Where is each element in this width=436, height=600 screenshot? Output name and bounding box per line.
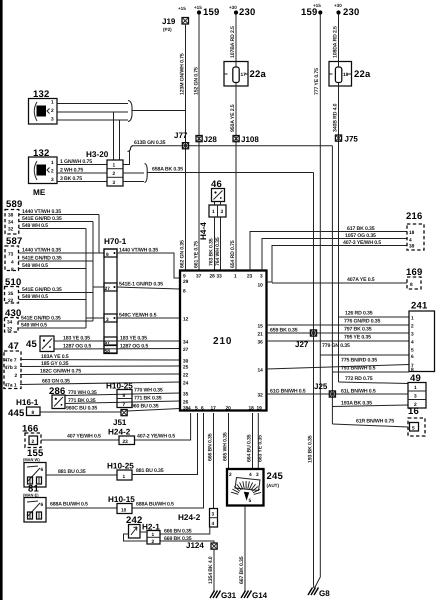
svg-text:32: 32 bbox=[7, 327, 13, 333]
svg-text:27: 27 bbox=[183, 347, 189, 353]
wire 772 RD 0.75 from J75 line to 49 pin 1 bbox=[339, 376, 409, 384]
svg-text:1: 1 bbox=[414, 385, 417, 391]
svg-text:1: 1 bbox=[411, 316, 414, 322]
connector H4-4 bbox=[199, 202, 226, 241]
svg-text:+30: +30 bbox=[334, 3, 342, 8]
svg-text:H24-2: H24-2 bbox=[178, 513, 201, 522]
node J108 bbox=[233, 135, 259, 144]
shield bracket on 658A at H3-20 bbox=[145, 164, 148, 183]
svg-text:772 RD 0.75: 772 RD 0.75 bbox=[345, 376, 373, 382]
wire 881 BU 0.35 from 155 to H10-25 pin 1 bbox=[46, 469, 117, 475]
svg-text:881 BU 0.35: 881 BU 0.35 bbox=[136, 468, 164, 474]
svg-text:2: 2 bbox=[15, 373, 18, 379]
wire 688A BU/WH 0.5 from H10-15 to ECU pin 6 bbox=[132, 413, 204, 508]
connector H10-15 (pin 10) bbox=[108, 495, 135, 514]
svg-text:24: 24 bbox=[183, 381, 189, 387]
svg-text:58: 58 bbox=[105, 349, 111, 355]
svg-text:9: 9 bbox=[183, 274, 186, 280]
svg-text:22a: 22a bbox=[354, 69, 371, 80]
wire 1440 VT/WH 0.35 from 589-38 bbox=[19, 209, 99, 215]
wire 61G BN/WH 0.5 from ECU pin 32 through J25, 61L BN/WH 0.5 to 49 pin 3 bbox=[267, 389, 409, 395]
svg-text:407 YE/WH 0.5: 407 YE/WH 0.5 bbox=[67, 434, 101, 440]
svg-text:4: 4 bbox=[188, 406, 191, 412]
node 159 right (+15 supply) bbox=[301, 3, 322, 18]
svg-text:245: 245 bbox=[267, 471, 284, 482]
svg-text:4: 4 bbox=[212, 521, 215, 527]
wire 407-3 YE/WH 0.5 from pin 10 junction to 216 pin 38 bbox=[267, 240, 408, 282]
node 230 right (+30 supply) bbox=[334, 3, 359, 18]
svg-text:5: 5 bbox=[412, 426, 415, 432]
svg-text:881 BU 0.35: 881 BU 0.35 bbox=[58, 469, 86, 475]
wire 771 BK 0.35 from 286 to ECU pin 26 bbox=[65, 396, 180, 405]
svg-text:666 BN 0.35: 666 BN 0.35 bbox=[164, 529, 192, 535]
svg-text:27: 27 bbox=[105, 286, 111, 292]
wire 541E-1 GN/RD 0.35 from H70-1 pin 27 to ECU pin 8 bbox=[117, 282, 180, 290]
svg-text:108DA RD 2.5: 108DA RD 2.5 bbox=[333, 26, 339, 58]
wire 541E GN/RD 0.35 from 510-35 bbox=[19, 287, 94, 293]
svg-text:763 BK 0.35: 763 BK 0.35 bbox=[209, 238, 215, 266]
wire 777 YE 0.75 from 159 right, down to ground G8 bbox=[314, 14, 320, 588]
node J77 bbox=[174, 131, 189, 149]
node 159 left (+15 supply) bbox=[194, 5, 219, 18]
wire 1057 OG 0.35 from ECU pin 3 to 216 pin 4 bbox=[262, 233, 407, 271]
svg-text:152 GN 0.75: 152 GN 0.75 bbox=[194, 67, 200, 95]
svg-text:(MAN E): (MAN E) bbox=[23, 493, 39, 498]
svg-text:183A YE 0.5: 183A YE 0.5 bbox=[41, 354, 69, 360]
svg-text:688A BU/WH 0.5: 688A BU/WH 0.5 bbox=[136, 502, 174, 508]
svg-text:5: 5 bbox=[195, 406, 198, 412]
wire 107BA RD 2.5 down to fuse 22a bbox=[230, 14, 236, 62]
component 589 (dashed unit) bbox=[5, 199, 22, 234]
svg-text:34: 34 bbox=[7, 320, 13, 326]
wire 193A BK 0.35 from J25 to 49 pin 2 bbox=[332, 401, 408, 407]
svg-text:340B RD 4.0: 340B RD 4.0 bbox=[333, 103, 339, 132]
svg-text:1440 VT/WH 0.35: 1440 VT/WH 0.35 bbox=[119, 248, 158, 254]
svg-text:34: 34 bbox=[8, 220, 14, 226]
component 216 (dashed unit) bbox=[406, 211, 424, 250]
svg-text:10: 10 bbox=[258, 283, 264, 289]
wire 407A YE 0.5 from pin 10 junction to 169 pin 8 bbox=[272, 277, 407, 283]
svg-text:549 WH 0.5: 549 WH 0.5 bbox=[22, 294, 48, 300]
svg-text:J108: J108 bbox=[241, 135, 259, 144]
svg-text:541E-1 GN/RD 0.35: 541E-1 GN/RD 0.35 bbox=[119, 282, 163, 288]
svg-text:2: 2 bbox=[152, 539, 155, 545]
node J51 bbox=[113, 410, 127, 428]
node J75 bbox=[335, 135, 358, 144]
svg-text:36: 36 bbox=[258, 340, 264, 346]
wire 182C GN/WH 0.75 to ECU pin 22 bbox=[20, 369, 180, 375]
wire 549 WH 0.5 from 510-22 bbox=[19, 294, 87, 300]
svg-text:16: 16 bbox=[408, 406, 419, 417]
wire 666 BN 0.35 from H24-2 to H2-1 pin 1 bbox=[160, 527, 210, 535]
svg-text:663 YE 0.35: 663 YE 0.35 bbox=[258, 435, 264, 462]
wire BK down from 658A through J27 to ground G8, label 193 BK 0.35 bbox=[308, 173, 314, 589]
svg-text:193A BK 0.35: 193A BK 0.35 bbox=[341, 401, 372, 407]
svg-text:3: 3 bbox=[414, 394, 417, 400]
svg-text:G8: G8 bbox=[319, 589, 330, 598]
svg-text:12: 12 bbox=[183, 317, 189, 323]
connector H3-20 bbox=[86, 150, 123, 186]
svg-text:541E GN/RD 0.35: 541E GN/RD 0.35 bbox=[22, 256, 62, 262]
svg-text:G14: G14 bbox=[252, 591, 268, 600]
svg-text:549 WH 0.5: 549 WH 0.5 bbox=[21, 323, 47, 329]
svg-text:407A YE 0.5: 407A YE 0.5 bbox=[347, 277, 375, 283]
svg-text:1: 1 bbox=[113, 163, 116, 169]
connector H24-2 (pin 23) bbox=[108, 428, 135, 446]
component 155 pressure switch bbox=[23, 448, 46, 487]
wires H3-20 pins 2,3 to bracket bbox=[123, 173, 144, 182]
svg-text:658A BK 0.35: 658A BK 0.35 bbox=[152, 167, 183, 173]
svg-text:6: 6 bbox=[411, 354, 414, 360]
wire 541E GN/RD 0.35 from 589-34 bbox=[19, 216, 93, 222]
component 132 lower (sensor) ME bbox=[29, 148, 58, 197]
wire 795 YE 0.35 from ECU pin 36 to 241 pin 4 bbox=[267, 335, 410, 342]
svg-text:26: 26 bbox=[183, 400, 189, 406]
wire 775 BN/RD 0.35 from ECU pin 14 to 241 pin 7 bbox=[267, 358, 410, 370]
component 81 pressure switch bbox=[23, 484, 46, 523]
svg-text:23: 23 bbox=[123, 439, 129, 445]
wire 667 BK 0.35 from 245 pin 5 to ground G14 bbox=[239, 506, 245, 592]
svg-text:216: 216 bbox=[406, 211, 422, 222]
svg-text:659 BK 0.35: 659 BK 0.35 bbox=[270, 328, 298, 334]
svg-text:541E GN/RD 0.35: 541E GN/RD 0.35 bbox=[21, 316, 61, 322]
svg-text:18: 18 bbox=[409, 230, 415, 236]
shield bracket at 132 upper bbox=[128, 101, 132, 122]
wire 779 GN 0.35 from 159R line to 241 pin 6 bbox=[320, 343, 409, 355]
component 510 (dashed unit) bbox=[5, 277, 22, 304]
wire 1440 VT/WH 0.35 from H70-1 pin 9 to ECU pin 29 bbox=[117, 248, 180, 279]
component 242 bbox=[126, 515, 142, 538]
wire 1287 OG 0.5 from 45 to ECU pin 27 bbox=[54, 344, 180, 350]
svg-text:7: 7 bbox=[123, 402, 126, 408]
svg-text:2: 2 bbox=[113, 171, 116, 177]
svg-text:38: 38 bbox=[8, 213, 14, 219]
svg-text:587: 587 bbox=[6, 236, 22, 247]
svg-text:665 WH 0.35: 665 WH 0.35 bbox=[223, 432, 229, 461]
svg-text:8: 8 bbox=[183, 289, 186, 295]
svg-text:1: 1 bbox=[234, 274, 237, 280]
wire branches from 132 pins 2,3 down to H3-20 bbox=[114, 112, 120, 160]
wire 185 GY 0.35 to ECU pin 25 bbox=[20, 361, 180, 367]
svg-text:37: 37 bbox=[196, 274, 202, 280]
riser 541E bus bbox=[92, 222, 94, 322]
svg-text:3: 3 bbox=[260, 274, 263, 280]
wire 950A YE 2.5 / 654 RD 0.75 from fuse through J108 to ECU pin 1 bbox=[230, 86, 236, 271]
svg-text:241: 241 bbox=[411, 301, 428, 312]
svg-text:1440 VT/WH 0.35: 1440 VT/WH 0.35 bbox=[22, 209, 61, 215]
svg-text:H70-1: H70-1 bbox=[104, 237, 127, 246]
wire 665 WH 0.35 from ECU pin 20 down to 245 pin 2 bbox=[223, 413, 229, 469]
wire 658A BK 0.35 from bracket to turn at x313.5 bbox=[147, 167, 313, 173]
wire from bracket to J19 line bbox=[132, 110, 186, 112]
ECU 210 bbox=[180, 271, 267, 412]
wire 242 to H2-1 stubs bbox=[124, 532, 148, 541]
svg-text:J28: J28 bbox=[204, 135, 218, 144]
svg-text:549 WH 0.5: 549 WH 0.5 bbox=[22, 263, 48, 269]
fuse 22a (19) right bbox=[329, 62, 371, 87]
wire 617 BK 0.35 from ECU pin 23 to 216 pin 18 bbox=[250, 226, 407, 271]
svg-text:61L BN/WH 0.5: 61L BN/WH 0.5 bbox=[341, 389, 376, 395]
svg-text:1287 OG 0.5: 1287 OG 0.5 bbox=[120, 344, 148, 350]
svg-text:795 YE 0.35: 795 YE 0.35 bbox=[344, 335, 371, 341]
svg-text:3: 3 bbox=[212, 512, 215, 518]
svg-text:777 YE 0.75: 777 YE 0.75 bbox=[314, 68, 320, 95]
svg-text:589: 589 bbox=[6, 199, 22, 210]
svg-text:776 GN/RD 0.35: 776 GN/RD 0.35 bbox=[344, 319, 381, 325]
wire from H3-20 pin 1 up to 613B bracket bbox=[123, 151, 130, 165]
wire 666 BN 0.35 from ECU pin 17 down to H24-2 bbox=[208, 413, 214, 509]
wire 776 GN/RD 0.35 from ECU pin 15 to 241 pin 2 bbox=[267, 319, 410, 326]
svg-text:18: 18 bbox=[249, 406, 255, 412]
page border left edge bbox=[0, 0, 3, 600]
component 45 (sensor) bbox=[26, 336, 54, 352]
riser from 613B turn down through J25 bbox=[331, 146, 333, 424]
svg-text:J75: J75 bbox=[345, 135, 359, 144]
svg-text:J19: J19 bbox=[162, 17, 176, 26]
svg-text:663 GN 0.35: 663 GN 0.35 bbox=[42, 379, 70, 385]
svg-text:1057 OG 0.35: 1057 OG 0.35 bbox=[345, 233, 376, 239]
svg-text:688A BU/WH 0.5: 688A BU/WH 0.5 bbox=[50, 502, 88, 508]
svg-text:29: 29 bbox=[183, 279, 189, 285]
wire 340B RD 4.0 from fuse to J75 and down bbox=[333, 86, 339, 382]
ground G31 bbox=[210, 591, 237, 600]
svg-text:159: 159 bbox=[203, 7, 219, 18]
wire 1440 VT/WH 0.35 from 587-73 bbox=[19, 248, 105, 254]
svg-text:2: 2 bbox=[51, 169, 54, 175]
shield bracket on 613B bbox=[128, 146, 134, 152]
svg-text:9: 9 bbox=[106, 252, 109, 258]
node J27 bbox=[295, 330, 317, 349]
svg-text:541E GN/RD 0.35: 541E GN/RD 0.35 bbox=[22, 287, 62, 293]
svg-text:2: 2 bbox=[32, 439, 35, 445]
svg-text:8: 8 bbox=[32, 410, 35, 416]
wire 541E GN/RD 0.35 from 587-4 bbox=[19, 256, 94, 262]
svg-text:2: 2 bbox=[411, 324, 414, 330]
svg-text:549 WH 0.5: 549 WH 0.5 bbox=[22, 223, 48, 229]
component 132 upper (sensor) bbox=[29, 89, 58, 124]
connector H10-25 (upper) bbox=[106, 382, 133, 409]
svg-text:17: 17 bbox=[211, 406, 217, 412]
svg-text:771 BK 0.35: 771 BK 0.35 bbox=[68, 398, 96, 404]
svg-text:H16-1: H16-1 bbox=[16, 398, 39, 407]
svg-text:664 BU 0.35: 664 BU 0.35 bbox=[247, 434, 253, 462]
svg-text:47b 3: 47b 3 bbox=[5, 365, 18, 371]
svg-text:1287 OG 0.5: 1287 OG 0.5 bbox=[63, 344, 91, 350]
svg-text:45: 45 bbox=[26, 339, 37, 350]
wire 793 BN/WH 0.5 to 241 pin 8 bbox=[332, 366, 409, 373]
svg-text:(AUT): (AUT) bbox=[267, 483, 280, 488]
wire 960 BU 0.35 from J51 to ECU pin 39 bbox=[127, 404, 180, 412]
svg-text:+15: +15 bbox=[194, 5, 202, 10]
svg-text:230: 230 bbox=[343, 7, 359, 18]
wire 763 BK 0.35 to ECU pin 28 bbox=[209, 217, 215, 271]
wire 407-2 YE/WH 0.5 from H24-2 to ECU pin 4 bbox=[135, 413, 191, 440]
svg-text:797 BK 0.35: 797 BK 0.35 bbox=[344, 327, 372, 333]
svg-text:3: 3 bbox=[51, 117, 54, 123]
svg-text:793 BN/WH 0.5: 793 BN/WH 0.5 bbox=[341, 366, 376, 372]
svg-text:770 WH 0.35: 770 WH 0.35 bbox=[68, 390, 97, 396]
component 587 (dashed unit) bbox=[5, 236, 22, 273]
svg-text:770 WH 0.35: 770 WH 0.35 bbox=[134, 388, 163, 394]
svg-text:4: 4 bbox=[249, 472, 252, 478]
svg-text:19: 19 bbox=[257, 406, 263, 412]
svg-text:2: 2 bbox=[229, 472, 232, 478]
node J19 (+15 supply) bbox=[162, 6, 189, 32]
wire 3 BK 0.75 bbox=[57, 176, 107, 182]
svg-text:407-3 YE/WH 0.5: 407-3 YE/WH 0.5 bbox=[343, 240, 381, 246]
svg-text:666 BN 0.35: 666 BN 0.35 bbox=[208, 433, 214, 461]
wire 541E GN/RD 0.35 from 430-34 bbox=[18, 316, 93, 322]
svg-text:960 BU 0.35: 960 BU 0.35 bbox=[131, 404, 159, 410]
component 46 (sensor) bbox=[211, 179, 225, 202]
svg-text:3: 3 bbox=[113, 180, 116, 186]
component 49 (connector unit) bbox=[408, 373, 426, 408]
wire 152 GN 0.75 / 661 YE 0.75 from 159 through J28 to ECU pin 37 bbox=[194, 14, 200, 271]
svg-text:123M GN/WH 0.75: 123M GN/WH 0.75 bbox=[180, 53, 186, 95]
wire 549 WH 0.5 from 587-8 bbox=[19, 263, 87, 269]
svg-text:5: 5 bbox=[411, 348, 414, 354]
svg-text:159: 159 bbox=[301, 7, 317, 18]
svg-text:+15: +15 bbox=[178, 6, 186, 11]
wire 549 WH 0.5 from 589-32 bbox=[19, 223, 86, 229]
svg-text:617 BK 0.35: 617 BK 0.35 bbox=[347, 226, 375, 232]
svg-text:230: 230 bbox=[239, 7, 255, 18]
svg-text:22: 22 bbox=[8, 298, 14, 304]
component 16 (dashed unit) bbox=[408, 406, 425, 436]
ground G8 bbox=[308, 588, 330, 599]
svg-text:3 BK 0.75: 3 BK 0.75 bbox=[60, 176, 82, 182]
svg-text:30: 30 bbox=[183, 359, 189, 365]
svg-text:4: 4 bbox=[409, 238, 412, 244]
component 430 (dashed unit) bbox=[5, 308, 22, 333]
svg-text:J124: J124 bbox=[186, 541, 204, 550]
wire 108DA RD 2.5 down to fuse 22a right bbox=[333, 14, 339, 62]
svg-text:107BA RD 2.5: 107BA RD 2.5 bbox=[230, 26, 236, 58]
svg-text:775 BN/RD 0.35: 775 BN/RD 0.35 bbox=[341, 358, 377, 364]
svg-text:61G BN/WH 0.5: 61G BN/WH 0.5 bbox=[270, 389, 306, 395]
svg-text:764 WH 0.35: 764 WH 0.35 bbox=[215, 237, 221, 266]
svg-text:1: 1 bbox=[123, 474, 126, 480]
wire 664 BU 0.35 from ECU pin 18 down to 245 pin 4 bbox=[247, 413, 253, 469]
svg-text:1: 1 bbox=[152, 532, 155, 538]
connector H2-1 bbox=[142, 523, 160, 545]
connector H10-25 (lower, pin 1) bbox=[107, 462, 134, 481]
svg-text:6: 6 bbox=[201, 406, 204, 412]
svg-text:33: 33 bbox=[217, 274, 223, 280]
svg-text:771 BK 0.35: 771 BK 0.35 bbox=[134, 396, 162, 402]
svg-text:28: 28 bbox=[210, 274, 216, 280]
svg-text:H3-20: H3-20 bbox=[86, 150, 109, 159]
svg-text:H24-2: H24-2 bbox=[108, 428, 131, 437]
svg-text:32: 32 bbox=[8, 227, 14, 233]
component 286 (sensor) bbox=[49, 386, 65, 409]
node J124 bbox=[186, 541, 217, 550]
wires from 132 upper pins 1-3 to shield bracket bbox=[57, 104, 128, 121]
svg-text:6: 6 bbox=[41, 467, 44, 473]
svg-text:960C BU 0.35: 960C BU 0.35 bbox=[66, 406, 97, 412]
svg-text:ME: ME bbox=[33, 188, 46, 197]
wire 663 GN 0.35 to ECU pin 24 bbox=[20, 379, 180, 385]
wire 407 YE/WH 0.5 from 166 to H24-2 pin 23 bbox=[41, 434, 119, 441]
svg-text:3: 3 bbox=[106, 317, 109, 323]
wire 764 WH 0.35 to ECU pin 33 bbox=[215, 217, 221, 271]
wire 123M GN/WH 0.75 / 662 GN 0.35 from J19 to ECU pin 9 bbox=[180, 24, 186, 271]
svg-text:4: 4 bbox=[411, 340, 414, 346]
svg-text:5: 5 bbox=[249, 498, 252, 504]
svg-text:38: 38 bbox=[409, 244, 415, 250]
wire 61R BN/WH 0.75 from J25 riser to 16 pin 5 bbox=[332, 419, 408, 428]
svg-text:22a: 22a bbox=[250, 69, 267, 80]
svg-text:126 RD 0.35: 126 RD 0.35 bbox=[345, 311, 373, 317]
svg-text:34: 34 bbox=[183, 340, 189, 346]
svg-text:1354 BK 4.0: 1354 BK 4.0 bbox=[208, 556, 214, 584]
svg-text:8: 8 bbox=[410, 282, 413, 288]
wire 688A BU/WH 0.5 from 81 to H10-15 bbox=[46, 502, 117, 509]
svg-text:H10-15: H10-15 bbox=[108, 495, 135, 504]
svg-text:23: 23 bbox=[247, 274, 253, 280]
svg-text:35: 35 bbox=[183, 392, 189, 398]
ground G14 bbox=[241, 591, 268, 600]
component 47 (dashed unit) bbox=[4, 341, 21, 389]
svg-text:6: 6 bbox=[41, 502, 44, 508]
node J25 bbox=[314, 382, 336, 397]
svg-text:1: 1 bbox=[212, 209, 215, 215]
svg-text:J77: J77 bbox=[174, 131, 188, 140]
svg-text:47a 1: 47a 1 bbox=[5, 383, 17, 389]
wire 770 WH 0.35 from 286 to ECU pin 35 bbox=[65, 388, 180, 397]
svg-text:183 YE 0.35: 183 YE 0.35 bbox=[63, 336, 90, 342]
svg-text:779 GN 0.35: 779 GN 0.35 bbox=[322, 343, 350, 349]
svg-text:654 RD 0.75: 654 RD 0.75 bbox=[230, 240, 236, 268]
component 166 (dashed unit) bbox=[22, 424, 41, 448]
node J28 bbox=[196, 135, 217, 144]
wire 669 BK 0.35 from H2-1 pin 2 to J124 bbox=[160, 536, 214, 543]
svg-text:182C GN/WH 0.75: 182C GN/WH 0.75 bbox=[40, 369, 81, 375]
svg-text:J25: J25 bbox=[314, 382, 328, 391]
wire 549 WH 0.5 from 430-32 bbox=[18, 323, 86, 329]
svg-text:1: 1 bbox=[51, 100, 54, 106]
svg-text:8: 8 bbox=[11, 267, 14, 273]
svg-text:19: 19 bbox=[343, 72, 349, 78]
svg-text:35: 35 bbox=[8, 291, 14, 297]
svg-text:17: 17 bbox=[241, 72, 247, 78]
svg-text:613B GN 0.35: 613B GN 0.35 bbox=[134, 140, 166, 146]
svg-text:15: 15 bbox=[258, 324, 264, 330]
svg-text:(P2): (P2) bbox=[163, 27, 172, 32]
wire 1354 BK 4.0 from J124 to ground G31 bbox=[208, 549, 214, 591]
svg-text:407-2 YE/WH 0.5: 407-2 YE/WH 0.5 bbox=[137, 434, 175, 440]
wire 659 BK 0.35 from ECU pin 21 through J27, 797 BK 0.35 to 241 pin 3 bbox=[267, 327, 410, 334]
wire 2 WH 0.75 bbox=[57, 168, 107, 174]
svg-text:3: 3 bbox=[256, 472, 259, 478]
svg-text:22: 22 bbox=[183, 373, 189, 379]
svg-text:14: 14 bbox=[258, 368, 264, 374]
svg-text:183 YE 0.35: 183 YE 0.35 bbox=[120, 336, 147, 342]
component 241 bbox=[409, 301, 435, 374]
svg-text:950A YE 2.5: 950A YE 2.5 bbox=[230, 104, 236, 132]
branch 541E to H70-1 pin 27 bbox=[93, 286, 104, 288]
svg-text:1440 VT/WH 0.35: 1440 VT/WH 0.35 bbox=[22, 248, 61, 254]
fuse 22a (17) left bbox=[224, 62, 266, 87]
svg-text:1 GN/WH 0.75: 1 GN/WH 0.75 bbox=[60, 159, 92, 165]
svg-text:47e 7: 47e 7 bbox=[5, 358, 17, 364]
svg-text:J51: J51 bbox=[113, 418, 127, 427]
svg-text:185 GY 0.35: 185 GY 0.35 bbox=[41, 361, 69, 367]
wire 663 YE 0.35 from ECU pin 19 down to 245 pin 3 bbox=[258, 413, 264, 469]
svg-text:1: 1 bbox=[51, 160, 54, 166]
svg-text:8: 8 bbox=[123, 393, 126, 399]
svg-text:G31: G31 bbox=[221, 591, 237, 600]
